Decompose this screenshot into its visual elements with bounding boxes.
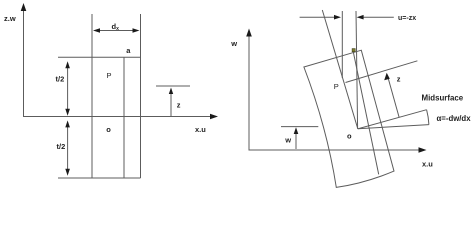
svg-text:u=-zx: u=-zx (398, 15, 416, 22)
svg-text:z.w: z.w (4, 14, 16, 23)
svg-text:P: P (334, 82, 339, 91)
svg-text:z: z (177, 101, 181, 110)
svg-text:t/2: t/2 (56, 75, 65, 84)
svg-text:w: w (230, 39, 237, 48)
svg-text:z: z (397, 74, 401, 83)
svg-text:Midsurface: Midsurface (422, 94, 464, 103)
svg-text:o: o (106, 125, 111, 134)
svg-text:P: P (107, 71, 112, 80)
svg-text:α=-dw/dx: α=-dw/dx (437, 114, 472, 123)
svg-text:t/2: t/2 (57, 142, 66, 151)
svg-text:a: a (126, 46, 131, 55)
svg-text:o: o (347, 132, 352, 141)
svg-text:w: w (284, 136, 291, 145)
svg-text:x.u: x.u (422, 160, 433, 169)
svg-text:x.u: x.u (195, 125, 206, 134)
svg-text:dx: dx (112, 22, 120, 32)
